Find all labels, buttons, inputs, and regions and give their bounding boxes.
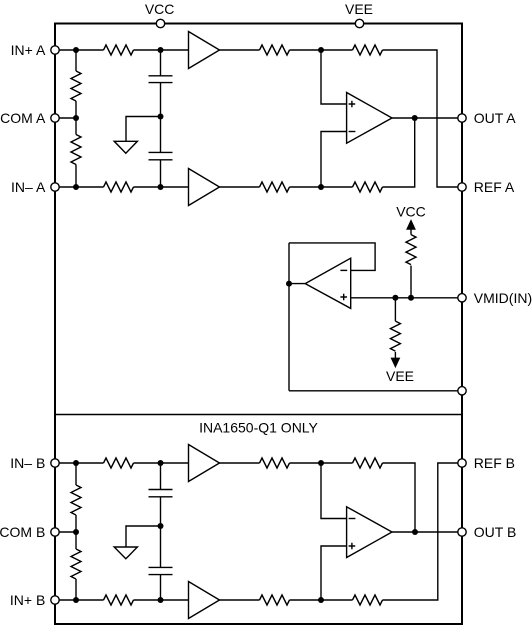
plus sign U3 [349,543,356,550]
capacitor C4 [149,567,173,574]
node IN+B/R18 [73,597,79,603]
wire to +node B [290,599,353,601]
wire cap chain bottom [160,160,162,187]
wire IN+ A row to buffer [134,49,189,51]
pin IN- A [51,183,59,191]
svg-text:VCC: VCC [396,204,426,220]
minus sign U1 [349,131,356,133]
resistor R11 (IN- B input) [104,458,134,468]
wire IN- A row left [55,186,104,188]
wire OUT A [392,117,462,119]
wire VMID bottom to pin [289,390,462,392]
pin IN+ A [51,46,59,54]
wire +input rise B [321,546,347,600]
minus sign U3 [349,518,356,520]
wire buffer A2 output [220,186,260,188]
node VEE branch [392,295,398,301]
wire left chain bottom [75,165,77,188]
node IN+B/C4 [158,597,164,603]
node +input B [318,597,324,603]
node OUT A junction [412,115,418,121]
svg-text:IN+ B: IN+ B [10,592,45,608]
resistor R16 (+node to REF B) [353,595,383,605]
resistor R1 (IN+ A input) [104,45,134,55]
pin VMID(IN) [458,294,466,302]
wire left chain top [75,50,77,71]
wire to REF A riser [383,50,463,187]
wire IN- B row left [55,462,104,464]
wire U2 feedback top [289,243,375,271]
wire to -node A [290,186,353,188]
wire IN+ B row left [55,599,104,601]
wire -input drop B [321,463,347,519]
wire buffer A1 output [220,49,260,51]
svg-text:IN+ A: IN+ A [11,42,46,58]
op-amp U3 (channel B) [347,507,392,558]
node IN-B/C3 [158,460,164,466]
wire IN+ B row to buffer [134,599,189,601]
wire cap chain top B [160,463,162,490]
svg-text:IN– B: IN– B [10,455,45,471]
plus sign U1 [349,101,356,108]
node COM A [73,115,79,121]
wire buffer B1 output [220,462,260,464]
pin REF B [458,459,466,467]
wire OUT B [392,531,462,533]
INA1650-Q1 ONLY separator line [55,414,462,416]
plus sign U2 [340,294,347,301]
capacitor C2 [149,152,173,159]
svg-text:VEE: VEE [345,1,373,17]
wire left chain mid B [75,515,77,549]
wire COM A stub [55,117,76,119]
op-amp U1 (channel A) [347,93,392,144]
resistor R12 [260,458,290,468]
buffer amp A1 [189,32,220,69]
wire ground branch B [126,526,161,547]
wire to +node A [290,49,353,51]
resistor R2 [260,45,290,55]
resistor R4 (IN- A input) [104,182,134,192]
wire VMID(IN) row [351,297,462,299]
svg-text:VEE: VEE [386,368,414,384]
node -input B [318,460,324,466]
node IN+A/C1 [158,47,164,53]
wire ground branch A [126,117,161,142]
resistor R18 (COM B to IN+ B) [71,549,81,579]
resistor R14 (IN+ B input) [104,595,134,605]
pin REF A [458,183,466,191]
node +input A [318,47,324,53]
wire left chain top B [75,463,77,485]
buffer amp A2 [189,169,220,206]
ground symbol A [114,141,137,153]
node cap-gnd A [158,114,164,120]
wire left chain mid [75,101,77,135]
pin OUT A [458,114,466,122]
svg-text:REF A: REF A [474,179,515,195]
resistor R9 (to VCC) [406,235,416,265]
wire cap chain mid [160,83,162,153]
wire U2 left vertical [288,243,290,391]
node IN-B/R17 [73,460,79,466]
arrow VCC [407,221,415,229]
capacitor C1 [149,76,173,83]
pin COM B [51,528,59,536]
node cap-gnd B [158,523,164,529]
buffer amp B1 [189,445,220,482]
node COM B [73,529,79,535]
wire to REF B riser [383,463,463,600]
minus sign U2 [340,269,347,271]
svg-text:INA1650-Q1 ONLY: INA1650-Q1 ONLY [199,420,318,436]
resistor R6 (-node to OUT A) [353,182,383,192]
wire feedback riser to OUT B [383,463,416,532]
node IN-A/R8 [73,184,79,190]
pin VEE [355,19,363,27]
wire cap chain top [160,50,162,76]
svg-text:OUT A: OUT A [474,110,516,126]
node VCC branch [408,295,414,301]
resistor R13 (-node to OUT B) [353,458,383,468]
svg-text:REF B: REF B [474,455,515,471]
buffer amp B2 [189,582,220,619]
resistor R15 [260,595,290,605]
wire buffer B2 output [220,599,260,601]
wire VCC pull-up branch [410,266,412,298]
wire VEE pull-down branch [394,298,396,321]
svg-text:COM A: COM A [0,110,46,126]
node -input A [318,184,324,190]
resistor R5 [260,182,290,192]
op-amp U2 (VMID buffer, points left) [305,258,351,308]
pin VCC [156,19,164,27]
wire IN- B row to buffer [134,462,189,464]
ground symbol B [114,547,137,559]
wire to -node B [290,462,353,464]
wire to VCC arrow [410,229,412,235]
svg-text:COM B: COM B [0,524,45,540]
arrow VEE [392,358,400,366]
wire cap chain mid B [160,497,162,568]
wire -input rise [321,132,347,188]
svg-text:VMID(IN): VMID(IN) [474,290,532,306]
svg-text:IN– A: IN– A [11,179,46,195]
pin IN- B [51,459,59,467]
wire COM B stub [55,531,76,533]
node IN+A/R7 [73,47,79,53]
resistor R3 (+node to REF A) [353,45,383,55]
svg-text:VCC: VCC [145,1,175,17]
pin COM A [51,114,59,122]
wire left chain bottom B [75,579,77,600]
pin IN+ B [51,596,59,604]
node VMID output [286,281,292,287]
pin VMID bottom [458,387,466,395]
wire IN- A row to buffer [134,186,189,188]
capacitor C3 [149,490,173,497]
wire cap chain bottom B [160,575,162,600]
wire U2 output [289,283,305,285]
wire IN+ A row left [55,49,104,51]
resistor R17 (IN- B to COM B) [71,485,81,515]
wire to VEE arrow [394,352,396,359]
wire +input drop [321,50,347,104]
svg-text:OUT B: OUT B [474,524,517,540]
pin OUT B [458,528,466,536]
resistor R10 (to VEE) [390,321,400,351]
node OUT B junction [412,529,418,535]
wire feedback riser to OUT A [383,118,415,187]
resistor R8 (COM A to IN- A) [71,135,81,165]
node IN-A/C2 [158,184,164,190]
IC outer boundary box [55,24,462,625]
resistor R7 (IN+ A to COM A) [71,71,81,101]
